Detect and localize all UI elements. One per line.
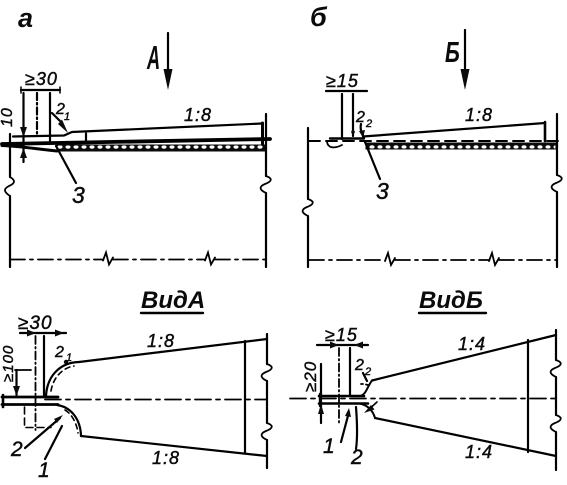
- left plate edge with break (view b): [307, 128, 309, 199]
- >=20 dimension line (vid B): [320, 364, 322, 423]
- strap left end (vid B): [319, 394, 321, 406]
- dimension extension line x23 with 10-thickness arrows: [22, 93, 24, 162]
- hidden dashed arc bottom (vid A): [65, 410, 78, 433]
- leader for 2-2 (vid B): [363, 373, 367, 381]
- right break line (view b): [556, 114, 558, 175]
- section arrow A line: [167, 33, 169, 74]
- svg-text:а: а: [18, 3, 33, 33]
- bottom centerline with breaks (view a): [10, 259, 103, 261]
- right break line (vid A): [266, 334, 268, 364]
- svg-text:Б: Б: [445, 37, 460, 69]
- dimension extension line x50: [49, 93, 51, 142]
- extension line x44 (vid A): [43, 336, 45, 396]
- svg-text:1:8: 1:8: [147, 331, 175, 351]
- section arrow B head: [461, 69, 470, 90]
- weld bead dotted band (view a): [57, 145, 265, 151]
- >=100 tick: [15, 369, 31, 371]
- svg-text:1:8: 1:8: [152, 448, 180, 468]
- taper end vertical (vid B): [527, 340, 529, 452]
- dimension extension line x37: [36, 93, 38, 135]
- dimension >=15 line (vid B): [317, 344, 368, 346]
- narrow strap top line (vid B): [319, 395, 364, 398]
- svg-text:≥30: ≥30: [25, 69, 58, 89]
- hidden dash dots at tip (vid B): [361, 383, 363, 385]
- strap left end (vid A): [2, 395, 5, 407]
- strip end hook curve (view b): [327, 142, 342, 147]
- svg-text:2: 2: [10, 438, 24, 461]
- leader for label 2-2: [361, 124, 363, 135]
- tip corner curve top (vid B): [360, 381, 372, 397]
- left plate edge with break (view a): [9, 134, 11, 177]
- rounded corner arc top (vid A): [46, 362, 79, 396]
- dimension >=30 line (view a): [21, 89, 60, 91]
- section arrow B line: [464, 30, 466, 72]
- svg-text:ВидБ: ВидБ: [419, 287, 483, 314]
- svg-text:А: А: [146, 39, 160, 76]
- svg-text:2: 2: [354, 357, 365, 374]
- bevel wedge 1:8 (view a): [13, 124, 262, 137]
- cover strip left underside line (view a): [2, 146, 57, 152]
- tip arrowhead (vid B): [364, 405, 375, 413]
- svg-text:1: 1: [38, 459, 51, 482]
- svg-text:2: 2: [365, 118, 373, 130]
- hidden dashed corner bracket (vid A): [25, 407, 52, 428]
- leader for label 2-1: [52, 113, 60, 121]
- svg-text:≥30: ≥30: [18, 313, 53, 334]
- right break line (view a): [265, 114, 267, 176]
- plate top surface thick line (view a): [2, 139, 270, 144]
- narrow strap top line (vid A): [2, 396, 58, 399]
- bottom centerline with breaks (view b): [309, 259, 385, 261]
- svg-text:≥100: ≥100: [0, 345, 17, 382]
- svg-text:≥15: ≥15: [326, 71, 359, 91]
- svg-text:1: 1: [323, 435, 336, 458]
- svg-text:3: 3: [72, 182, 86, 208]
- taper bottom edge 1:8 (vid A): [81, 436, 267, 456]
- taper top edge 1:8 (vid A): [79, 339, 267, 362]
- extension dash-dot line x35.5 (vid A): [35, 336, 37, 430]
- extension line x353 (vid B): [349, 348, 351, 395]
- narrow strap bottom line (vid B): [319, 402, 368, 405]
- bevel wedge 1:8 (view b): [363, 123, 545, 137]
- svg-text:≥15: ≥15: [325, 325, 358, 345]
- extension line x342: [341, 94, 343, 139]
- svg-text:10: 10: [0, 107, 16, 127]
- taper top edge 1:4 (vid B): [372, 335, 556, 381]
- taper bottom edge 1:4 (vid B): [375, 418, 556, 456]
- tip corner curve bottom (vid B): [360, 404, 375, 419]
- svg-text:1:8: 1:8: [184, 105, 212, 125]
- narrow strap bottom line (vid A): [2, 403, 58, 406]
- weld bead dotted band (view b): [366, 143, 556, 149]
- svg-text:1: 1: [64, 111, 71, 123]
- section arrow A head: [164, 69, 173, 90]
- dimension >=30 line (vid A): [20, 332, 66, 334]
- plate top hidden dashed line (view b): [309, 140, 558, 142]
- right break line (vid B): [555, 330, 557, 360]
- svg-text:1:4: 1:4: [458, 334, 486, 354]
- svg-text:2: 2: [54, 344, 65, 361]
- svg-text:1:8: 1:8: [465, 105, 493, 125]
- svg-text:1:4: 1:4: [465, 442, 493, 462]
- centerline (vid B): [290, 398, 556, 400]
- svg-text:ВидА: ВидА: [141, 287, 205, 314]
- hidden dashed arc top (vid A): [51, 366, 74, 391]
- dimension >=15 line (view b): [326, 90, 367, 92]
- centerline (vid A): [45, 399, 266, 401]
- extension dash-dot line x339 (vid B): [338, 348, 340, 425]
- svg-text:3: 3: [376, 178, 390, 204]
- taper end vertical (vid A): [244, 341, 246, 453]
- rounded corner arc bottom (vid A): [57, 405, 81, 436]
- cover strip top line (view b): [330, 137, 364, 139]
- >=100 dimension line with arrow: [15, 370, 17, 395]
- svg-text:б: б: [310, 2, 328, 32]
- svg-text:≥20: ≥20: [301, 361, 320, 392]
- extension line x353: [352, 94, 354, 136]
